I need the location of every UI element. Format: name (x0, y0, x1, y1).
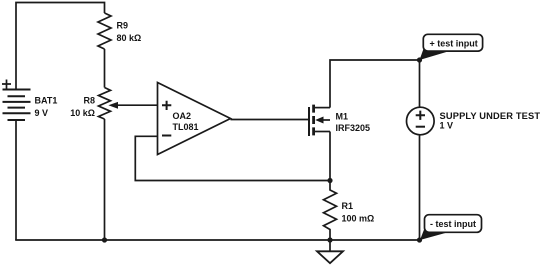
wire M1 source down to feedback node (329, 132, 331, 181)
voltage source SUPPLY UNDER TEST (407, 107, 435, 135)
op-amp OA2 (158, 83, 231, 155)
transistor M1 (N-MOSFET) (309, 105, 330, 136)
wire supply under test to bottom rail (419, 135, 421, 240)
svg-text:IRF3205: IRF3205 (336, 123, 371, 133)
svg-text:R1: R1 (342, 201, 354, 211)
wire R8 wiper to op-amp non-inverting input (115, 104, 158, 106)
wire R9 to R8 (104, 49, 106, 88)
svg-text:80 kΩ: 80 kΩ (117, 33, 142, 43)
svg-text:100 mΩ: 100 mΩ (342, 214, 375, 224)
ground (317, 240, 343, 263)
svg-text:BAT1: BAT1 (35, 96, 58, 106)
potentiometer R8 (99, 88, 119, 120)
wire battery negative to ground rail (15, 120, 17, 240)
svg-text:10 kΩ: 10 kΩ (70, 108, 95, 118)
wire M1 drain to top rail (330, 60, 420, 108)
svg-text:R9: R9 (117, 21, 129, 31)
junction R8 bottom on ground rail (102, 237, 107, 242)
svg-text:- test input: - test input (430, 219, 476, 229)
svg-text:SUPPLY UNDER TEST: SUPPLY UNDER TEST (440, 111, 540, 121)
wire top rail from battery positive to R9 (16, 3, 105, 90)
junction feedback node at M1 source (327, 178, 332, 183)
wire R8 bottom to ground rail (104, 119, 106, 240)
wire ground rail bottom (15, 239, 420, 241)
wire top rail to supply under test (419, 60, 421, 107)
svg-text:OA2: OA2 (173, 111, 192, 121)
svg-text:1 V: 1 V (440, 121, 454, 131)
svg-text:TL081: TL081 (173, 122, 199, 132)
resistor R9 (98, 13, 111, 49)
svg-text:R8: R8 (83, 96, 95, 106)
battery BAT1 (2, 80, 31, 121)
node + test input callout (420, 34, 483, 60)
resistor R1 (324, 181, 337, 241)
junction top rail at + test input (417, 57, 422, 62)
svg-text:9 V: 9 V (35, 108, 49, 118)
node - test input callout (420, 215, 482, 240)
svg-text:M1: M1 (336, 112, 349, 122)
svg-text:+ test input: + test input (429, 39, 477, 49)
junction bottom rail at - test input (417, 237, 422, 242)
wire op-amp inverting input feedback to source node (135, 136, 330, 180)
wire op-amp output to M1 gate (231, 119, 310, 121)
junction R1 bottom on ground rail (327, 237, 332, 242)
